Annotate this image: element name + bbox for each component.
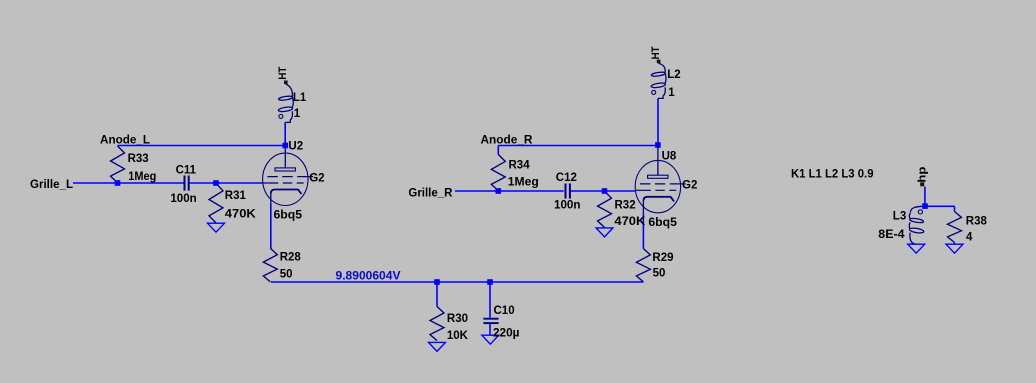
svg-text:220µ: 220µ — [493, 328, 520, 340]
svg-text:R38: R38 — [966, 216, 988, 228]
svg-text:Grille_L: Grille_L — [30, 179, 73, 191]
svg-text:R33: R33 — [128, 153, 149, 165]
svg-text:1: 1 — [294, 108, 301, 120]
svg-text:C11: C11 — [176, 164, 197, 176]
svg-text:1Meg: 1Meg — [508, 177, 539, 189]
svg-text:100n: 100n — [170, 193, 196, 205]
svg-text:K1 L1 L2 L3 0.9: K1 L1 L2 L3 0.9 — [791, 169, 874, 181]
svg-text:6bq5: 6bq5 — [648, 217, 677, 229]
svg-text:U2: U2 — [288, 140, 303, 152]
svg-text:L2: L2 — [667, 69, 680, 81]
svg-text:R28: R28 — [280, 251, 302, 263]
svg-text:R31: R31 — [225, 190, 247, 202]
svg-text:hp: hp — [916, 166, 928, 182]
svg-text:8E-4: 8E-4 — [878, 229, 905, 241]
svg-text:Anode_R: Anode_R — [481, 135, 534, 147]
svg-text:470K: 470K — [614, 216, 646, 228]
svg-text:Grille_R: Grille_R — [408, 187, 453, 199]
svg-text:470K: 470K — [225, 208, 257, 220]
svg-text:R34: R34 — [509, 159, 531, 171]
svg-text:6bq5: 6bq5 — [274, 210, 303, 222]
svg-text:G2: G2 — [682, 180, 697, 192]
svg-text:G2: G2 — [309, 172, 324, 184]
svg-text:50: 50 — [653, 268, 666, 280]
svg-text:50: 50 — [280, 269, 293, 281]
svg-text:R30: R30 — [447, 313, 468, 325]
svg-text:1Meg: 1Meg — [128, 171, 156, 183]
svg-text:100n: 100n — [554, 199, 581, 211]
svg-text:C12: C12 — [556, 172, 577, 184]
svg-text:HT: HT — [650, 46, 662, 59]
svg-text:1: 1 — [668, 87, 675, 99]
svg-text:L3: L3 — [893, 211, 906, 223]
svg-text:HT: HT — [277, 66, 289, 79]
svg-text:U8: U8 — [662, 151, 677, 163]
svg-text:10K: 10K — [447, 330, 469, 342]
svg-text:C10: C10 — [494, 305, 515, 317]
svg-text:R29: R29 — [652, 252, 673, 264]
svg-text:Anode_L: Anode_L — [100, 135, 150, 147]
svg-text:L1: L1 — [293, 92, 307, 104]
svg-text:9.8900604V: 9.8900604V — [336, 271, 401, 283]
svg-text:R32: R32 — [615, 199, 636, 211]
svg-text:4: 4 — [966, 231, 973, 243]
